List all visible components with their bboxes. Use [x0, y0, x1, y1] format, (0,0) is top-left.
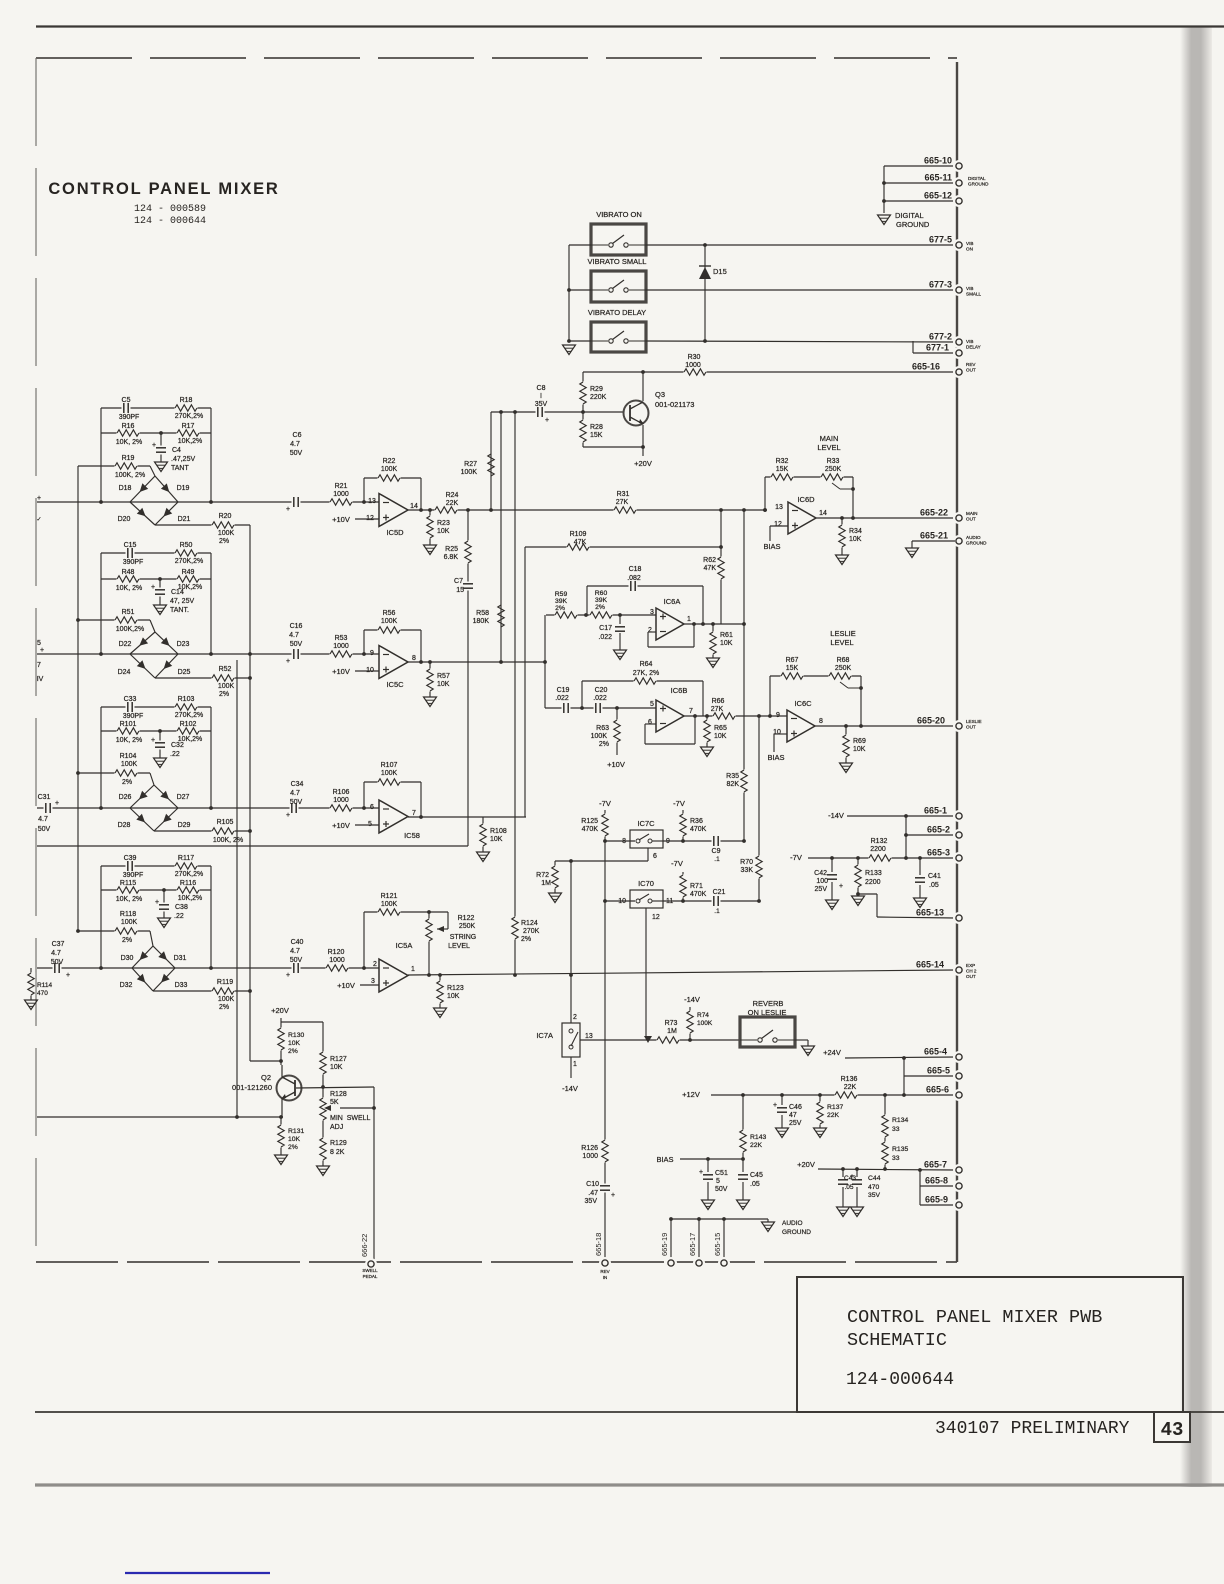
svg-text:10K, 2%: 10K, 2%	[116, 439, 142, 446]
svg-text:+: +	[773, 1102, 777, 1109]
svg-text:R130: R130	[288, 1032, 304, 1039]
svg-text:R135: R135	[892, 1146, 908, 1153]
svg-text:+10V: +10V	[332, 667, 350, 676]
svg-text:250K: 250K	[835, 665, 852, 672]
svg-text:33K: 33K	[741, 867, 754, 874]
svg-text:50V: 50V	[51, 959, 64, 966]
svg-text:C21: C21	[713, 889, 726, 896]
svg-text:1M: 1M	[667, 1028, 677, 1035]
svg-text:R69: R69	[853, 738, 866, 745]
svg-text:677-2: 677-2	[929, 332, 952, 342]
svg-text:R50: R50	[180, 542, 193, 549]
svg-text:MAIN: MAIN	[820, 434, 839, 443]
svg-text:SMALL: SMALL	[966, 291, 982, 296]
svg-text:665-15: 665-15	[713, 1233, 722, 1256]
svg-text:R63: R63	[596, 725, 609, 732]
svg-text:665-13: 665-13	[916, 908, 944, 918]
svg-text:R68: R68	[837, 657, 850, 664]
svg-text:665-8: 665-8	[925, 1176, 948, 1186]
svg-text:R67: R67	[786, 657, 799, 664]
svg-text:10K: 10K	[288, 1136, 301, 1143]
svg-text:001-021173: 001-021173	[655, 400, 694, 409]
svg-text:9: 9	[776, 712, 780, 719]
svg-text:665-6: 665-6	[926, 1085, 949, 1095]
svg-text:IC7A: IC7A	[536, 1031, 553, 1040]
svg-text:BIAS: BIAS	[656, 1155, 673, 1164]
svg-text:DELAY: DELAY	[966, 344, 981, 349]
svg-text:+: +	[545, 417, 549, 424]
svg-text:C39: C39	[124, 855, 137, 862]
svg-text:.47,25V: .47,25V	[171, 456, 195, 463]
svg-text:1: 1	[411, 966, 415, 973]
svg-text:390PF: 390PF	[123, 713, 144, 720]
svg-text:50V: 50V	[290, 799, 303, 806]
svg-text:R101: R101	[120, 721, 137, 728]
svg-text:665-20: 665-20	[917, 716, 945, 726]
svg-text:35V: 35V	[868, 1192, 881, 1199]
svg-text:.05: .05	[750, 1181, 760, 1188]
svg-text:15K: 15K	[786, 665, 799, 672]
svg-text:R19: R19	[122, 455, 135, 462]
svg-text:C19: C19	[557, 687, 570, 694]
svg-text:R56: R56	[383, 610, 396, 617]
svg-text:15: 15	[456, 587, 464, 594]
svg-text:C33: C33	[124, 696, 137, 703]
svg-text:R22: R22	[383, 458, 396, 465]
svg-text:2: 2	[648, 627, 652, 634]
svg-text:C4: C4	[172, 447, 181, 454]
svg-text:+: +	[155, 899, 159, 906]
svg-text:VIB: VIB	[966, 286, 973, 291]
svg-text:665-9: 665-9	[925, 1195, 948, 1205]
svg-text:R108: R108	[490, 828, 507, 835]
svg-text:R27: R27	[464, 461, 477, 468]
svg-text:665-10: 665-10	[924, 156, 952, 166]
svg-text:C41: C41	[928, 873, 941, 880]
svg-text:R136: R136	[841, 1076, 858, 1083]
svg-text:2%: 2%	[599, 741, 609, 748]
svg-text:10K,2%: 10K,2%	[178, 438, 203, 445]
svg-text:R120: R120	[328, 949, 345, 956]
svg-text:665-7: 665-7	[924, 1160, 947, 1170]
svg-text:4.7: 4.7	[290, 441, 300, 448]
svg-text:R65: R65	[714, 725, 727, 732]
svg-text:R52: R52	[219, 666, 232, 673]
svg-text:665-14: 665-14	[916, 960, 944, 970]
svg-text:4.7: 4.7	[289, 632, 299, 639]
svg-text:C17: C17	[599, 625, 612, 632]
svg-text:D30: D30	[121, 955, 134, 962]
svg-text:10K, 2%: 10K, 2%	[116, 896, 142, 903]
svg-text:.022: .022	[593, 695, 607, 702]
svg-text:C40: C40	[291, 939, 304, 946]
svg-text:R129: R129	[330, 1140, 347, 1147]
svg-text:C42: C42	[814, 870, 827, 877]
svg-text:2%: 2%	[288, 1144, 298, 1151]
svg-text:+: +	[699, 1169, 703, 1176]
svg-text:+: +	[286, 658, 290, 665]
svg-text:5: 5	[716, 1178, 720, 1185]
svg-text:IC70: IC70	[638, 879, 654, 888]
svg-text:-14V: -14V	[828, 811, 844, 820]
svg-text:R57: R57	[437, 673, 450, 680]
svg-text:+12V: +12V	[682, 1090, 700, 1099]
svg-text:R18: R18	[180, 397, 193, 404]
svg-text:22K: 22K	[446, 500, 459, 507]
svg-text:D15: D15	[713, 267, 727, 276]
svg-text:665-18: 665-18	[594, 1233, 603, 1256]
svg-text:C46: C46	[789, 1104, 802, 1111]
svg-text:+: +	[152, 442, 156, 449]
svg-text:43: 43	[1161, 1419, 1184, 1441]
svg-text:R131: R131	[288, 1128, 304, 1135]
svg-text:.05: .05	[929, 882, 939, 889]
svg-text:270K: 270K	[523, 928, 540, 935]
svg-text:OUT: OUT	[966, 724, 976, 729]
svg-text:+20V: +20V	[797, 1160, 815, 1169]
svg-text:39K: 39K	[555, 598, 568, 605]
svg-text:665-19: 665-19	[660, 1233, 669, 1256]
svg-text:D25: D25	[178, 669, 191, 676]
svg-text:+: +	[286, 812, 290, 819]
svg-text:R17: R17	[182, 423, 195, 430]
svg-text:665-21: 665-21	[920, 531, 948, 541]
svg-text:8 2K: 8 2K	[330, 1149, 345, 1156]
svg-text:R16: R16	[122, 423, 135, 430]
svg-text:2: 2	[573, 1014, 577, 1021]
svg-text:7: 7	[37, 662, 41, 669]
svg-text:D21: D21	[178, 516, 191, 523]
svg-text:10K,2%: 10K,2%	[178, 895, 203, 902]
svg-text:27K, 2%: 27K, 2%	[633, 670, 659, 677]
svg-text:.22: .22	[174, 913, 184, 920]
svg-text:100K: 100K	[381, 466, 398, 473]
svg-text:270K,2%: 270K,2%	[175, 871, 203, 878]
svg-text:R29: R29	[590, 386, 603, 393]
svg-text:IC5D: IC5D	[386, 528, 404, 537]
svg-text:3: 3	[371, 978, 375, 985]
svg-text:665-22: 665-22	[920, 508, 948, 518]
svg-text:+: +	[37, 495, 41, 502]
svg-text:-7V: -7V	[599, 799, 611, 808]
svg-text:AUDIO: AUDIO	[966, 535, 981, 540]
svg-text:R49: R49	[182, 569, 195, 576]
svg-text:665-16: 665-16	[912, 362, 940, 372]
svg-text:470: 470	[868, 1184, 880, 1191]
svg-text:ADJ: ADJ	[330, 1124, 343, 1131]
svg-text:IC6B: IC6B	[671, 686, 688, 695]
svg-text:C34: C34	[291, 781, 304, 788]
svg-text:22K: 22K	[750, 1142, 763, 1149]
svg-text:R32: R32	[776, 458, 789, 465]
svg-text:+20V: +20V	[271, 1006, 289, 1015]
svg-text:C44: C44	[868, 1175, 881, 1182]
svg-text:R103: R103	[178, 696, 195, 703]
svg-text:C6: C6	[293, 432, 302, 439]
svg-text:6.8K: 6.8K	[444, 554, 459, 561]
svg-text:6: 6	[653, 853, 657, 860]
svg-text:.22: .22	[170, 751, 180, 758]
svg-text:DIGITAL: DIGITAL	[968, 176, 986, 181]
svg-text:1000: 1000	[333, 491, 349, 498]
svg-text:BIAS: BIAS	[767, 753, 784, 762]
svg-text:C9: C9	[712, 848, 721, 855]
svg-text:2%: 2%	[555, 605, 565, 612]
svg-text:GROUND: GROUND	[896, 220, 930, 229]
svg-text:R128: R128	[330, 1091, 347, 1098]
svg-text:EXP: EXP	[966, 963, 975, 968]
svg-text:4.7: 4.7	[38, 816, 48, 823]
svg-text:+: +	[40, 647, 44, 654]
svg-text:33: 33	[892, 1155, 900, 1162]
svg-text:R127: R127	[330, 1056, 347, 1063]
svg-text:10K: 10K	[437, 528, 450, 535]
svg-text:-7V: -7V	[790, 853, 802, 862]
svg-text:100K: 100K	[381, 901, 398, 908]
svg-text:15K: 15K	[590, 432, 603, 439]
svg-text:2%: 2%	[521, 936, 531, 943]
svg-text:R123: R123	[447, 985, 464, 992]
svg-text:IC7C: IC7C	[637, 819, 655, 828]
svg-text:250K: 250K	[459, 923, 476, 930]
svg-text:C37: C37	[52, 941, 65, 948]
svg-text:100K, 2%: 100K, 2%	[213, 837, 243, 844]
svg-text:+20V: +20V	[634, 459, 652, 468]
svg-text:2200: 2200	[870, 846, 886, 853]
svg-text:666-22: 666-22	[360, 1234, 369, 1257]
svg-text:R28: R28	[590, 424, 603, 431]
svg-text:R70: R70	[740, 859, 753, 866]
svg-text:47, 25V: 47, 25V	[170, 598, 194, 605]
svg-text:677-1: 677-1	[926, 343, 949, 353]
svg-text:+: +	[286, 972, 290, 979]
svg-text:13: 13	[775, 504, 783, 511]
svg-text:D27: D27	[177, 794, 190, 801]
svg-text:10K: 10K	[849, 536, 862, 543]
svg-text:10K, 2%: 10K, 2%	[116, 585, 142, 592]
svg-text:R125: R125	[581, 818, 598, 825]
svg-text:C15: C15	[124, 542, 137, 549]
svg-text:IC5C: IC5C	[386, 680, 404, 689]
svg-text:+: +	[66, 972, 70, 979]
svg-text:R62: R62	[703, 557, 716, 564]
svg-text:REVERB: REVERB	[753, 999, 784, 1008]
svg-text:R23: R23	[437, 520, 450, 527]
svg-text:.082: .082	[627, 575, 641, 582]
svg-text:R30: R30	[688, 354, 701, 361]
svg-text:R107: R107	[381, 762, 398, 769]
svg-text:-14V: -14V	[562, 1084, 578, 1093]
svg-text:+: +	[839, 883, 843, 890]
svg-text:50V: 50V	[715, 1186, 728, 1193]
svg-text:R134: R134	[892, 1117, 908, 1124]
svg-text:390PF: 390PF	[123, 559, 144, 566]
svg-text:665-17: 665-17	[688, 1233, 697, 1256]
svg-text:390PF: 390PF	[123, 872, 144, 879]
svg-text:2%: 2%	[122, 779, 132, 786]
svg-text:665-2: 665-2	[927, 825, 950, 835]
svg-text:+: +	[55, 800, 59, 807]
svg-text:100: 100	[816, 878, 828, 885]
svg-text:CONTROL PANEL MIXER PWB: CONTROL PANEL MIXER PWB	[847, 1307, 1102, 1328]
svg-text:2200: 2200	[865, 879, 881, 886]
svg-text:220K: 220K	[590, 394, 607, 401]
svg-text:C8: C8	[537, 385, 546, 392]
svg-text:4.7: 4.7	[290, 790, 300, 797]
svg-text:+: +	[850, 1173, 854, 1180]
svg-text:82K: 82K	[727, 781, 740, 788]
svg-text:14: 14	[410, 503, 418, 510]
svg-text:33: 33	[892, 1126, 900, 1133]
svg-text:R73: R73	[665, 1020, 678, 1027]
svg-text:R72: R72	[536, 872, 549, 879]
svg-text:8: 8	[819, 718, 823, 725]
svg-text:OUT: OUT	[966, 367, 976, 372]
svg-text:R64: R64	[640, 661, 653, 668]
svg-text:C38: C38	[175, 904, 188, 911]
svg-text:C16: C16	[290, 623, 303, 630]
svg-text:R106: R106	[333, 789, 350, 796]
svg-text:D23: D23	[177, 641, 190, 648]
svg-text:R124: R124	[521, 920, 538, 927]
svg-text:665-12: 665-12	[924, 191, 952, 201]
svg-text:R74: R74	[697, 1012, 709, 1019]
svg-text:390PF: 390PF	[119, 414, 140, 421]
svg-text:27K: 27K	[711, 706, 724, 713]
svg-text:47K: 47K	[704, 565, 717, 572]
svg-text:250K: 250K	[825, 466, 842, 473]
svg-text:IC6D: IC6D	[797, 495, 815, 504]
svg-text:✓: ✓	[36, 517, 41, 523]
svg-text:100K: 100K	[121, 919, 138, 926]
svg-text:2: 2	[373, 961, 377, 968]
svg-text:.47: .47	[588, 1190, 598, 1197]
svg-text:15K: 15K	[776, 466, 789, 473]
svg-text:25V: 25V	[789, 1120, 802, 1127]
svg-text:D19: D19	[177, 485, 190, 492]
svg-text:340107 PRELIMINARY: 340107 PRELIMINARY	[935, 1419, 1130, 1439]
svg-text:R51: R51	[122, 609, 135, 616]
svg-text:+24V: +24V	[823, 1048, 841, 1057]
svg-text:2%: 2%	[219, 538, 229, 545]
svg-text:GROUND: GROUND	[782, 1229, 811, 1236]
svg-text:6: 6	[648, 719, 652, 726]
svg-text:14: 14	[819, 510, 827, 517]
svg-text:OUT: OUT	[966, 974, 976, 979]
svg-text:1: 1	[687, 616, 691, 623]
svg-text:22K: 22K	[844, 1084, 857, 1091]
svg-text:677-5: 677-5	[929, 235, 952, 245]
svg-text:10K: 10K	[330, 1064, 343, 1071]
svg-text:50V: 50V	[290, 641, 303, 648]
svg-text:C5: C5	[122, 397, 131, 404]
svg-text:1M: 1M	[541, 880, 551, 887]
svg-text:+10V: +10V	[332, 515, 350, 524]
svg-text:47K: 47K	[574, 539, 587, 546]
svg-text:C45: C45	[750, 1172, 763, 1179]
svg-text:8: 8	[412, 655, 416, 662]
svg-text:IV: IV	[37, 676, 44, 683]
svg-text:+10V: +10V	[607, 760, 625, 769]
svg-text:D32: D32	[120, 982, 133, 989]
svg-text:SCHEMATIC: SCHEMATIC	[847, 1330, 947, 1351]
svg-text:R116: R116	[180, 880, 196, 887]
svg-text:180K: 180K	[473, 618, 490, 625]
svg-text:5K: 5K	[330, 1099, 339, 1106]
svg-text:+: +	[286, 506, 290, 513]
svg-text:R105: R105	[217, 819, 234, 826]
svg-text:R71: R71	[690, 883, 703, 890]
svg-text:100K: 100K	[697, 1020, 713, 1027]
svg-text:DIGITAL: DIGITAL	[895, 211, 924, 220]
svg-text:R119: R119	[217, 979, 233, 986]
svg-text:VIB: VIB	[966, 241, 973, 246]
svg-text:.022: .022	[555, 695, 569, 702]
svg-text:R122: R122	[458, 915, 475, 922]
svg-text:R109: R109	[570, 531, 587, 538]
svg-text:665-5: 665-5	[927, 1066, 950, 1076]
svg-text:R102: R102	[180, 721, 197, 728]
svg-text:2%: 2%	[219, 691, 229, 698]
svg-text:10K: 10K	[437, 681, 450, 688]
svg-text:100K: 100K	[218, 530, 235, 537]
svg-text:LEVEL: LEVEL	[830, 638, 853, 647]
svg-text:665-11: 665-11	[924, 173, 952, 183]
svg-text:100K,2%: 100K,2%	[116, 626, 144, 633]
svg-text:7: 7	[412, 810, 416, 817]
svg-text:CONTROL PANEL MIXER: CONTROL PANEL MIXER	[48, 180, 279, 198]
svg-text:677-3: 677-3	[929, 280, 952, 290]
svg-text:R20: R20	[219, 513, 232, 520]
svg-text:10K, 2%: 10K, 2%	[116, 737, 142, 744]
svg-text:270K,2%: 270K,2%	[175, 712, 203, 719]
svg-text:STRING: STRING	[450, 934, 476, 941]
svg-text:2%: 2%	[595, 604, 605, 611]
svg-text:5: 5	[37, 640, 41, 647]
svg-text:OUT: OUT	[966, 516, 976, 521]
svg-text:IN: IN	[603, 1275, 608, 1280]
svg-text:VIBRATO SMALL: VIBRATO SMALL	[588, 257, 647, 266]
svg-text:470K: 470K	[690, 891, 707, 898]
svg-text:R35: R35	[726, 773, 739, 780]
svg-text:PEDAL: PEDAL	[363, 1274, 378, 1279]
svg-text:IC5A: IC5A	[396, 941, 413, 950]
svg-text:D28: D28	[118, 822, 131, 829]
svg-text:2%: 2%	[219, 1004, 229, 1011]
svg-text:39K: 39K	[595, 597, 608, 604]
svg-text:12: 12	[652, 914, 660, 921]
svg-text:1000: 1000	[685, 362, 701, 369]
svg-text:IC6A: IC6A	[664, 597, 681, 606]
svg-text:+10V: +10V	[337, 981, 355, 990]
svg-text:IC58: IC58	[404, 831, 420, 840]
svg-text:R115: R115	[120, 880, 136, 887]
svg-text:VIB: VIB	[966, 339, 973, 344]
svg-text:270K,2%: 270K,2%	[175, 413, 203, 420]
svg-text:C10: C10	[586, 1181, 599, 1188]
svg-text:100K: 100K	[218, 683, 235, 690]
svg-text:2%: 2%	[288, 1048, 298, 1055]
svg-text:LESLIE: LESLIE	[830, 629, 855, 638]
svg-text:R118: R118	[120, 911, 136, 918]
svg-text:R21: R21	[335, 483, 348, 490]
svg-text:13: 13	[585, 1033, 593, 1040]
svg-text:+10V: +10V	[332, 821, 350, 830]
svg-text:C18: C18	[629, 566, 642, 573]
svg-text:270K,2%: 270K,2%	[175, 558, 203, 565]
svg-text:1000: 1000	[329, 957, 345, 964]
svg-text:BIAS: BIAS	[763, 542, 780, 551]
